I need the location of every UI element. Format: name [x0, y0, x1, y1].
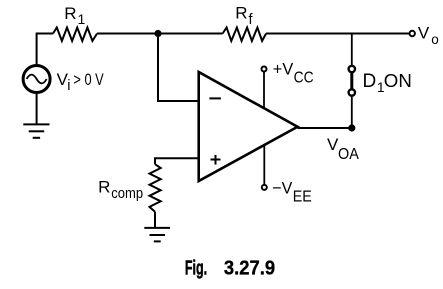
terminal -VEE — [262, 185, 267, 190]
label D1 ON — [363, 71, 412, 95]
svg-text:OA: OA — [338, 146, 359, 163]
svg-text:o: o — [431, 32, 439, 47]
svg-text:R: R — [98, 178, 110, 197]
wire top rail to D1 — [351, 34, 353, 66]
wire op-amp output to node VOA — [298, 127, 352, 129]
svg-text:f: f — [249, 12, 254, 28]
label -VEE — [272, 179, 312, 206]
svg-text:CC: CC — [294, 69, 314, 86]
svg-text:> 0 V: > 0 V — [73, 70, 104, 89]
node junction at inverting input — [154, 30, 161, 37]
svg-text:3.27.9: 3.27.9 — [224, 258, 275, 280]
svg-text:ON: ON — [384, 71, 412, 91]
minus sign (inverting input) — [209, 97, 221, 99]
svg-text:i: i — [67, 78, 70, 94]
svg-text:comp: comp — [111, 186, 143, 202]
resistor Rcomp — [150, 164, 161, 212]
caption Fig. 3.27.9 — [185, 258, 275, 280]
svg-text:R: R — [64, 4, 76, 23]
svg-text:D: D — [363, 71, 377, 92]
svg-text:EE: EE — [293, 189, 312, 206]
label Vi > 0 V — [57, 70, 105, 94]
resistor R1 — [53, 28, 97, 41]
label Rf — [235, 4, 253, 28]
wire source bottom to ground — [36, 93, 38, 125]
svg-text:−V: −V — [272, 179, 293, 198]
svg-text:+V: +V — [273, 60, 294, 79]
op-amp U1 — [199, 72, 298, 181]
wire feedback from junction to inverting input — [158, 34, 199, 102]
terminal Vo — [410, 31, 415, 36]
wire D1 to node VOA — [351, 96, 353, 128]
svg-text:1: 1 — [78, 11, 86, 27]
resistor Rf — [223, 28, 267, 41]
svg-text:Fig.: Fig. — [185, 258, 207, 280]
svg-text:V: V — [418, 24, 430, 43]
node VOA — [348, 124, 355, 131]
label Vo — [418, 24, 439, 47]
terminal +VCC — [262, 67, 267, 72]
plus sign (non-inverting input) — [211, 155, 221, 165]
ground (Rcomp) — [144, 228, 170, 242]
label VOA — [327, 135, 359, 163]
label +VCC — [273, 60, 314, 87]
ground (source) — [23, 124, 49, 137]
diode D1 shown ON (closed switch) — [349, 66, 355, 96]
wire VEE to op-amp — [263, 145, 265, 184]
voltage source Vi — [23, 66, 50, 93]
label Rcomp — [98, 178, 143, 202]
wire Rcomp to ground — [154, 212, 156, 228]
svg-text:R: R — [235, 4, 247, 23]
wire Rf to output terminal — [266, 33, 409, 35]
wire R1 to junction to Rf — [97, 33, 223, 35]
label R1 — [64, 4, 85, 27]
wire VCC to op-amp — [263, 72, 265, 108]
wire non-inverting input to Rcomp — [155, 158, 199, 164]
wire source top to R1 — [37, 34, 53, 66]
